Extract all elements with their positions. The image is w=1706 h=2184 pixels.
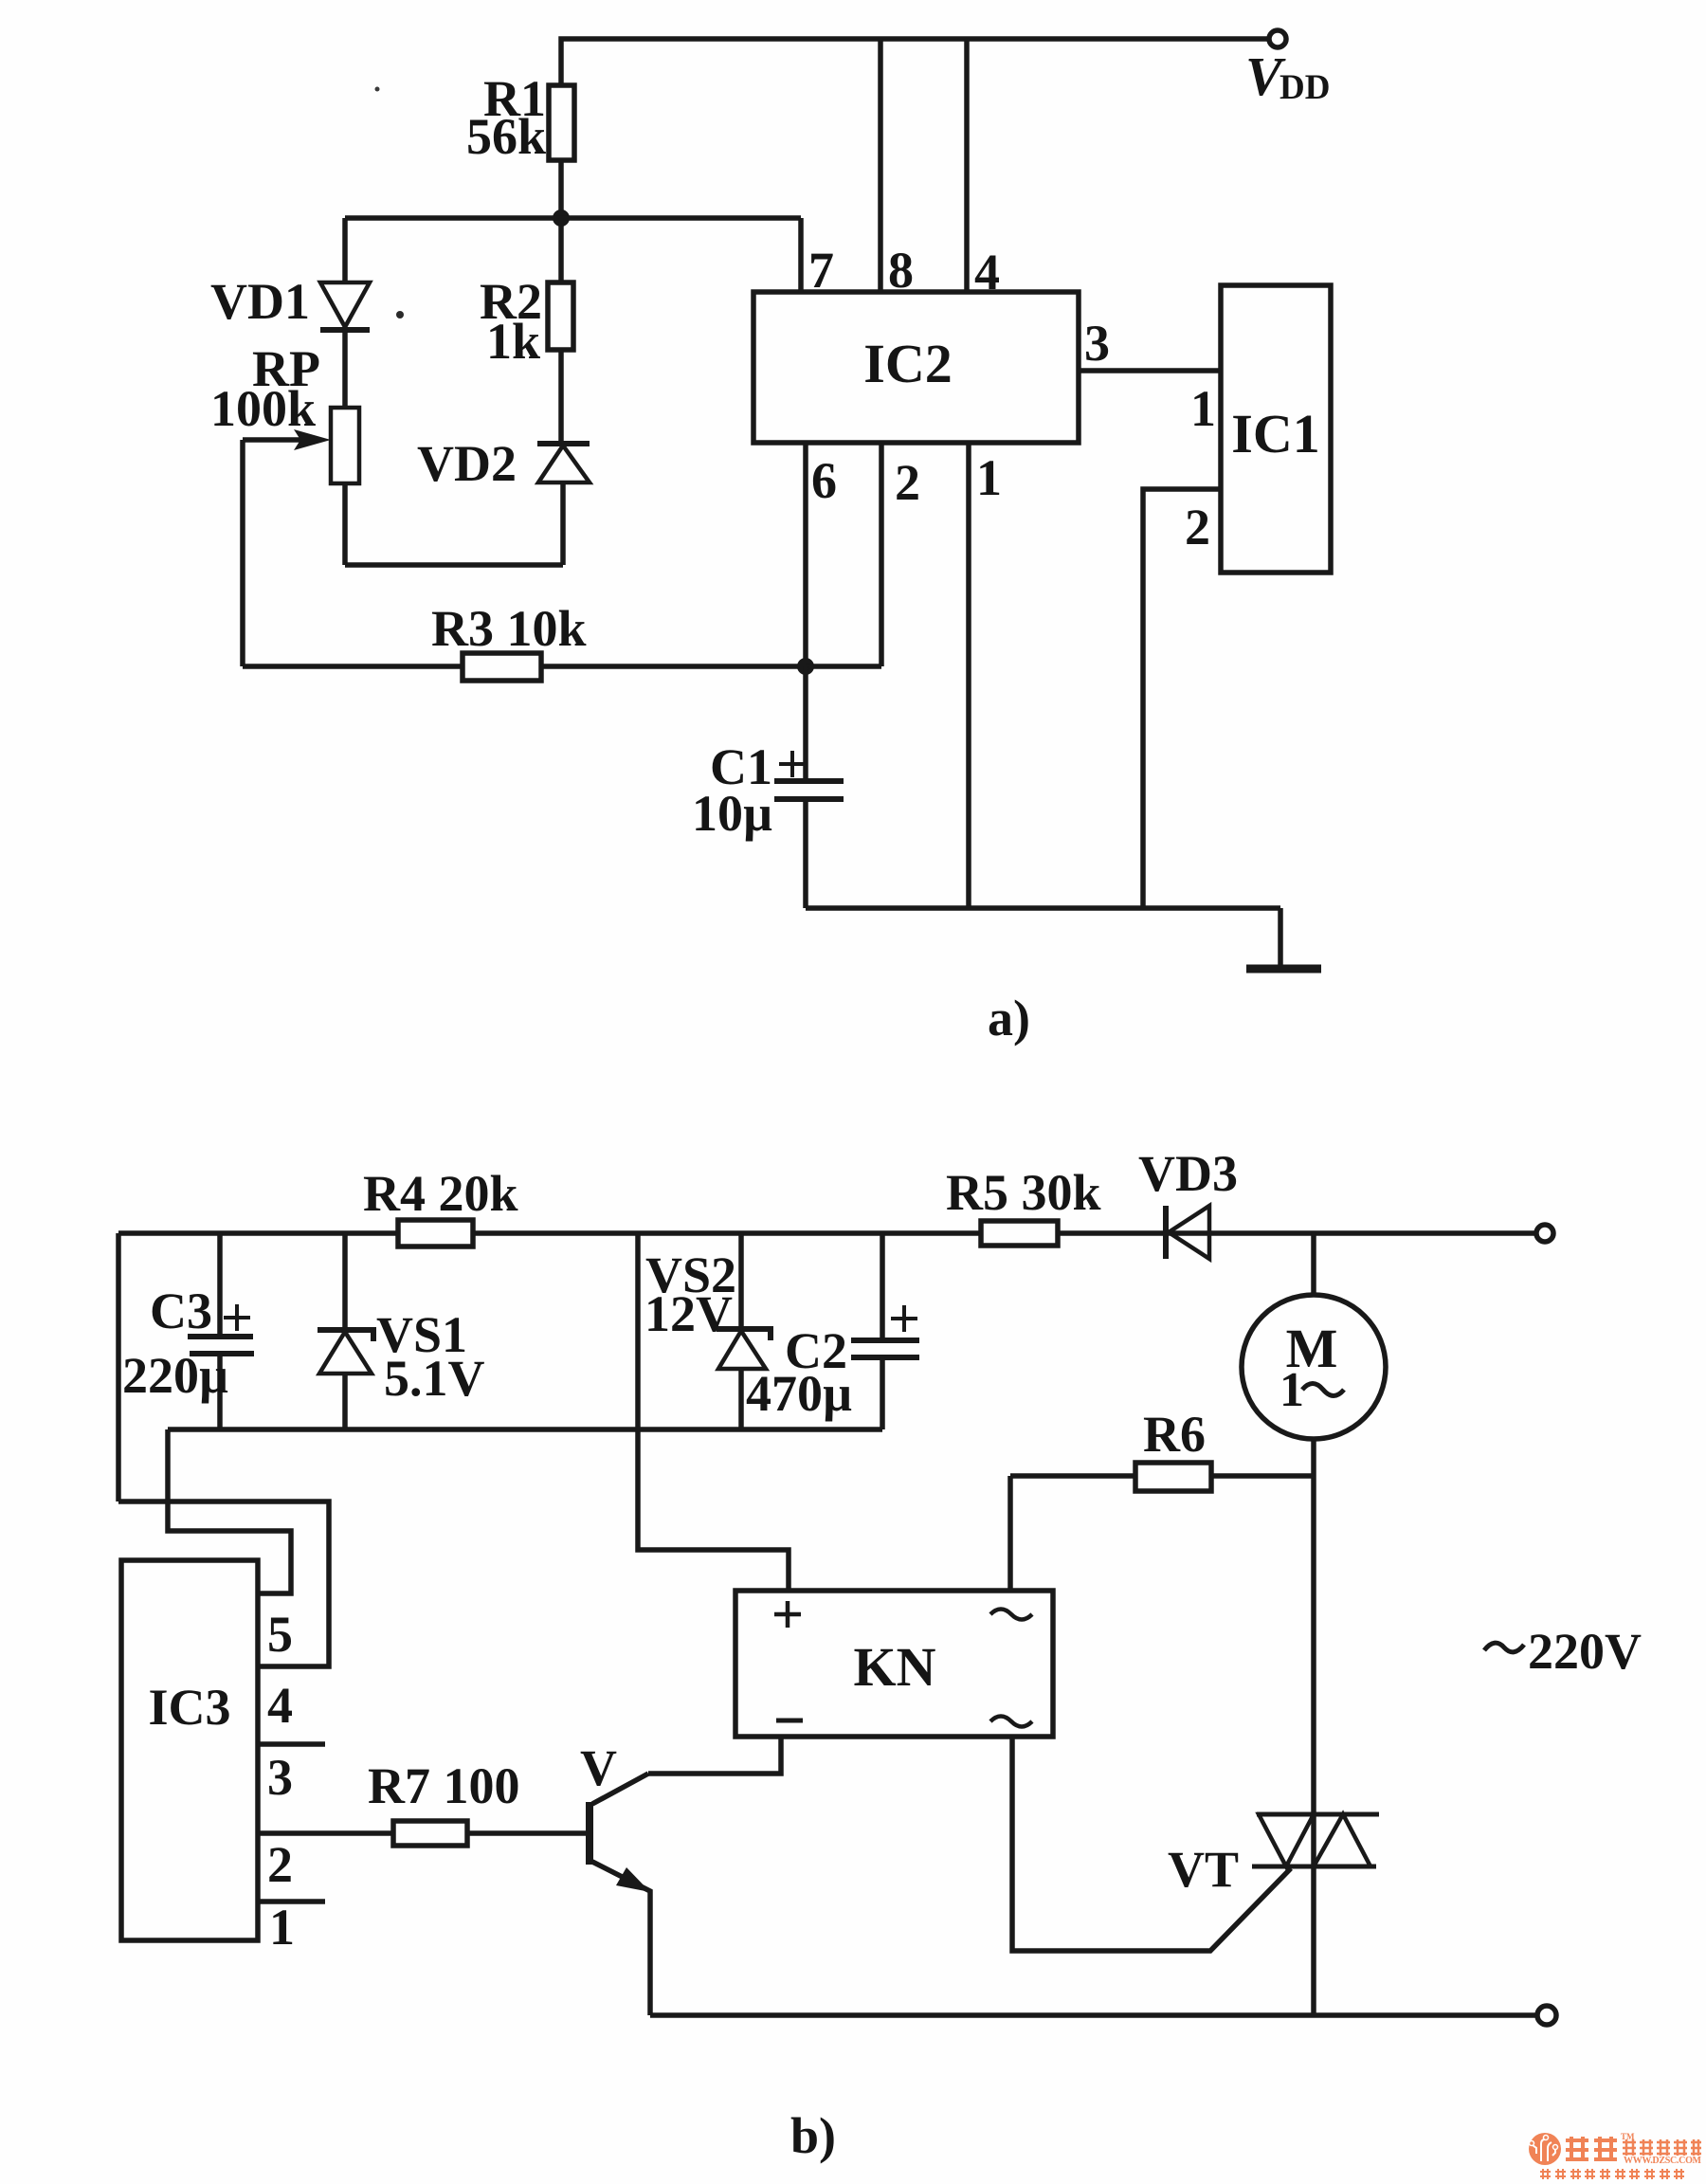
wire RP bottom to loop [342,483,348,565]
svg-text:220V: 220V [1528,1623,1642,1680]
wire bottom rail b1 [168,1427,882,1432]
wire rail b right [1058,1230,1536,1236]
pin 3 wire IC2 to IC1 [1079,368,1221,373]
svg-text:3: 3 [1084,315,1110,372]
label b) [790,2107,836,2164]
pin 4 stub IC3 [258,1741,325,1747]
svg-text:1k: 1k [486,313,540,370]
svg-text:IC3: IC3 [148,1679,230,1736]
svg-text:IC2: IC2 [863,333,952,394]
label a) [988,990,1030,1046]
svg-text:10µ: 10µ [692,785,772,842]
potentiometer RP [342,330,348,408]
svg-text:VD3: VD3 [1138,1145,1238,1202]
svg-text:VT: VT [1168,1841,1239,1898]
wire RP wiper down [240,440,245,666]
wire inner L to IC3 [168,1429,291,1593]
resistor R6 [1010,1473,1135,1479]
wire left drop [116,1233,121,1501]
svg-text:DD: DD [1279,68,1330,107]
svg-text:WWW.DZSC.COM: WWW.DZSC.COM [1624,2156,1702,2166]
terminal VDD [1269,30,1286,47]
watermark logo [1529,2132,1702,2179]
svg-text:2: 2 [895,454,920,511]
triac VT [1257,1812,1379,1817]
svg-text:4: 4 [267,1677,293,1734]
label 220V [1528,1623,1642,1680]
svg-text:2: 2 [267,1836,293,1893]
KN minus mark [776,1719,803,1723]
motor M [1311,1233,1316,1295]
svg-text:4: 4 [974,244,1000,300]
resistor R3 [243,664,463,669]
node junction R3/C1/pin6 [797,658,814,675]
svg-text:R5 30k: R5 30k [946,1164,1101,1221]
wire R2 to VD2 [558,350,564,444]
wire bottom rail a [806,905,1280,911]
pin 8 wire IC2 [878,39,883,292]
wire motor to triac [1311,1439,1316,2015]
pin 7 wire IC2 [798,218,804,292]
pin 6 wire IC2 [803,443,808,666]
wire loop bottom [345,562,563,568]
wire bottom rail b [650,2012,1537,2018]
KN ac mark top [990,1610,1032,1620]
svg-text:5: 5 [267,1606,293,1663]
node junction R1/R2 [553,209,570,227]
terminal bottom right [1537,2006,1556,2025]
svg-text:220µ: 220µ [122,1347,228,1404]
svg-text:VD2: VD2 [417,435,517,492]
svg-text:1: 1 [976,449,1002,506]
wiper arrow of RP [243,437,301,443]
pin 2 stub IC3 [258,1899,325,1904]
scan speck [396,311,404,318]
svg-text:IC1: IC1 [1231,403,1319,464]
resistor R2 [558,218,564,282]
wire VDD rail [561,39,1269,85]
ground [1278,908,1283,966]
svg-text:5.1V: 5.1V [384,1350,485,1407]
capacitor C1 [803,666,808,781]
wire junction to pin2 [806,664,881,669]
svg-text:R4 20k: R4 20k [363,1165,518,1222]
scan speck [375,87,380,92]
svg-text:1: 1 [1190,380,1216,437]
svg-text:R3 10k: R3 10k [431,600,587,657]
svg-text:V: V [580,1739,617,1796]
pin 1 wire IC2 [966,443,971,908]
svg-text:470µ: 470µ [746,1365,852,1422]
svg-text:TM: TM [1621,2132,1635,2141]
svg-text:C3: C3 [150,1283,212,1339]
relay KN box [735,1591,1053,1737]
KN plus mark [774,1601,801,1628]
transistor V [586,1802,593,1865]
svg-text:VD1: VD1 [210,273,310,330]
capacitor C3 [217,1233,223,1337]
resistor R1 [549,85,574,160]
pin 2 wire IC2 [879,443,884,666]
IC U3 box [121,1560,258,1940]
svg-text:1: 1 [1279,1363,1304,1417]
KN ac mark bottom [990,1717,1032,1727]
IC U2 box [753,292,1079,443]
wire node row to pin7 [345,215,801,221]
svg-text:R6: R6 [1143,1406,1206,1463]
svg-text:a): a) [988,990,1030,1046]
svg-text:2: 2 [1185,499,1210,555]
zener VS2 [738,1233,744,1329]
svg-text:12V: 12V [644,1285,733,1342]
svg-text:6: 6 [811,452,837,509]
svg-text:1: 1 [269,1899,295,1956]
resistor R4 [398,1220,473,1247]
svg-text:56k: 56k [466,108,546,165]
wire VS2 branch down to KN plus [638,1233,789,1591]
IC U1 box [1221,285,1331,573]
resistor R5 [981,1221,1058,1246]
diode VD3 [1163,1206,1169,1259]
label VDD [1245,45,1330,107]
capacitor C2 [880,1233,885,1340]
resistor R7 [258,1830,393,1836]
diode VD1 [342,218,348,282]
svg-text:7: 7 [808,242,834,299]
svg-text:8: 8 [888,242,914,299]
svg-text:KN: KN [854,1636,936,1698]
svg-text:100k: 100k [210,380,316,437]
wire rail b top [118,1230,398,1236]
svg-text:b): b) [790,2107,836,2164]
wire R1 bottom lead [558,160,564,218]
svg-text:R7 100: R7 100 [368,1757,520,1814]
wire KN minus to transistor collector [648,1737,781,1774]
svg-text:3: 3 [267,1749,293,1806]
pin 4 wire IC2 [964,39,970,292]
wire KN ac1 lead [1007,1476,1013,1591]
wire KN ac2 to triac gate [1012,1737,1291,1951]
zener VS1 [342,1233,348,1330]
diode VD2 [537,441,590,446]
pin 2 wire IC1 [1143,489,1221,908]
terminal top right [1536,1225,1553,1242]
wire rail b mid [473,1230,981,1236]
wire outer L to pin5 [118,1501,329,1666]
